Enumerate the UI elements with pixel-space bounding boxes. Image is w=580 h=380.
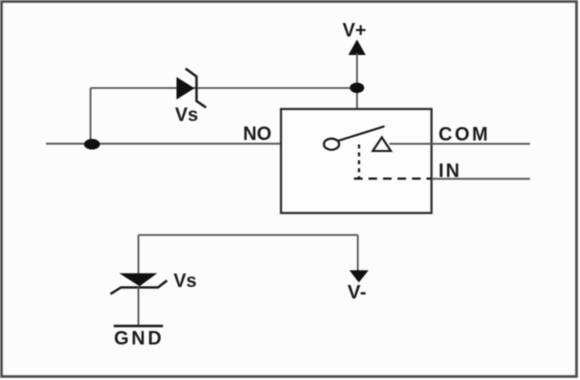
wire: V+ vertical into box — [356, 53, 358, 109]
diode Vs bottom suppressor: anode triangle — [119, 273, 157, 286]
diode Vs top suppressor: zener cathode bar — [186, 69, 207, 108]
node: V+ junction dot — [350, 83, 364, 93]
switch contact pivot circle — [324, 139, 339, 150]
svg-text:COM: COM — [439, 125, 491, 146]
wire: IN input horizontal — [432, 178, 531, 180]
svg-text:Vs: Vs — [174, 271, 197, 292]
diode Vs bottom suppressor: zener cathode bar — [111, 281, 168, 295]
wire: control loop right vertical — [357, 235, 359, 271]
wire: left vertical riser — [90, 88, 92, 144]
dashed control link horizontal — [354, 177, 432, 179]
wire: control loop left vertical — [137, 235, 139, 274]
svg-text:V+: V+ — [343, 21, 367, 42]
diode Vs top suppressor: anode triangle — [177, 77, 195, 100]
svg-text:Vs: Vs — [175, 105, 198, 126]
wire: NO input horizontal — [46, 143, 324, 145]
wire: top horizontal from left vertical to V+ junction — [91, 87, 358, 89]
svg-text:GND: GND — [114, 329, 164, 350]
switch blade (open) — [338, 126, 385, 141]
svg-text:V-: V- — [348, 282, 367, 304]
svg-text:NO: NO — [243, 124, 272, 145]
terminal V- arrow — [349, 270, 368, 282]
relay box U1 — [281, 109, 432, 213]
wire: control loop horizontal — [138, 234, 357, 236]
dashed control link vertical — [358, 145, 360, 180]
wire: diode to ground — [137, 287, 139, 326]
driver triangle inside box — [373, 137, 391, 151]
terminal V+ arrow — [348, 40, 365, 56]
wire: COM output horizontal — [390, 143, 531, 145]
ground bar — [114, 325, 163, 327]
node: left junction dot — [84, 139, 100, 150]
